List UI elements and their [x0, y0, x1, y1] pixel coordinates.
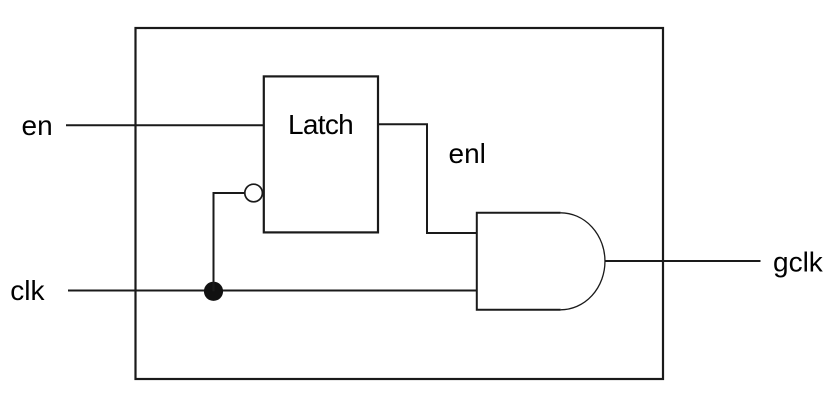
svg-text:enl: enl: [449, 138, 486, 169]
inverter bubble on latch gate input: [245, 184, 263, 202]
and gate U2: [477, 213, 561, 310]
wire clk branch vertical: [213, 193, 215, 291]
svg-text:en: en: [22, 110, 53, 141]
svg-text:gclk: gclk: [773, 246, 824, 277]
svg-text:clk: clk: [10, 275, 45, 306]
node clk junction: [204, 282, 223, 301]
outer module box: [136, 28, 664, 379]
latch U1: [264, 76, 378, 232]
wire clk: [68, 290, 477, 292]
wire enl: [379, 124, 477, 233]
wire clk branch horizontal: [213, 192, 245, 194]
wire gclk: [605, 260, 761, 262]
wire en: [66, 124, 263, 126]
svg-text:Latch: Latch: [288, 109, 353, 140]
